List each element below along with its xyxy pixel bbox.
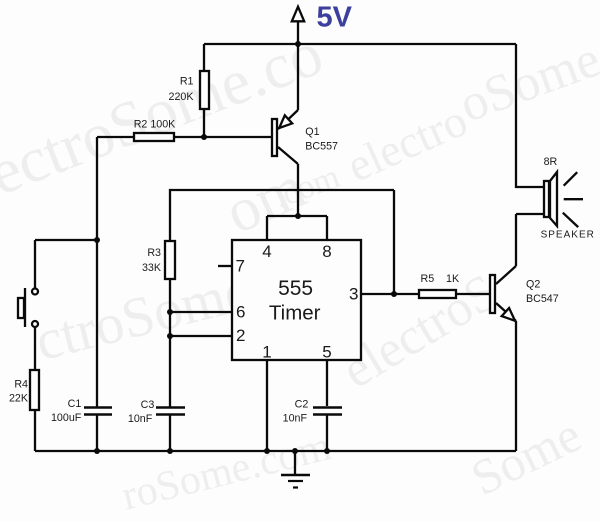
node C1 bus junction	[94, 448, 100, 454]
watermark fragment middle Some	[452, 30, 600, 135]
wire Q1 collector vertical	[297, 164, 299, 216]
wire pin 4 stub	[266, 216, 268, 240]
svg-text:BC557: BC557	[305, 141, 338, 153]
svg-text:100uF: 100uF	[51, 412, 82, 424]
node pin1 bus junction	[264, 448, 270, 454]
svg-text:33K: 33K	[142, 262, 162, 274]
wire left horizontal to button	[35, 239, 97, 241]
wire C2 bottom	[326, 416, 328, 452]
svg-text:R3: R3	[147, 247, 161, 259]
wire R2 to Q1 base	[175, 136, 271, 138]
resistor R1	[200, 71, 209, 109]
svg-text:Timer: Timer	[269, 301, 321, 324]
wire pin 1 down	[266, 360, 268, 451]
svg-text:Q1: Q1	[305, 126, 319, 138]
svg-text:BC547: BC547	[526, 293, 559, 305]
wire C1 bottom	[96, 416, 98, 452]
op-amp U1 555 timer box	[232, 240, 361, 360]
wire x394 vertical	[393, 190, 395, 294]
node ground bus junction	[292, 448, 298, 454]
wire pin 3 to R5	[361, 293, 419, 295]
capacitor C2	[313, 408, 342, 415]
svg-text:R2 100K: R2 100K	[134, 118, 176, 130]
wire pin 2	[170, 335, 232, 337]
svg-text:10nF: 10nF	[283, 413, 308, 425]
wire top rail	[204, 43, 516, 45]
node pin3 junction	[391, 291, 397, 297]
svg-text:SPEAKER: SPEAKER	[541, 229, 595, 240]
transistor Q1	[272, 44, 298, 164]
svg-text:5: 5	[322, 343, 331, 362]
node pin2 junction	[167, 333, 173, 339]
node R1/R2 junction	[201, 134, 207, 140]
power symbol 5V arrow	[292, 7, 304, 44]
node 5V junction	[295, 41, 301, 47]
wire Q2 collector up	[515, 214, 517, 266]
wire button bottom	[34, 327, 36, 370]
wire pin 6	[170, 311, 232, 313]
wire R1 top stub	[203, 44, 205, 71]
svg-text:C2: C2	[295, 399, 309, 411]
wire pin 5 down	[326, 360, 328, 406]
svg-text:R1: R1	[180, 76, 194, 88]
transistor Q2	[490, 266, 516, 321]
pushbutton SW1	[18, 288, 38, 327]
svg-text:7: 7	[236, 257, 245, 276]
svg-text:22K: 22K	[9, 393, 29, 405]
svg-text:6: 6	[236, 303, 245, 322]
svg-text:1K: 1K	[446, 273, 460, 285]
wire button top	[34, 240, 36, 288]
svg-text:R5: R5	[421, 273, 435, 285]
node 4-8 bridge junction	[295, 213, 301, 219]
svg-text:8R: 8R	[544, 156, 558, 168]
svg-text:R4: R4	[14, 379, 28, 391]
svg-text:10nF: 10nF	[128, 413, 153, 425]
resistor R5	[419, 290, 456, 298]
wire R4 to ground bus	[34, 411, 36, 451]
resistor R4	[30, 370, 39, 410]
wire R5 to Q2 base	[456, 293, 490, 295]
node left T junction	[94, 237, 100, 243]
ground	[281, 451, 310, 488]
capacitor C1	[84, 408, 112, 415]
watermark fragment lower-left	[29, 258, 257, 374]
svg-text:Q2: Q2	[526, 278, 540, 290]
svg-text:220K: 220K	[169, 91, 195, 103]
wire R3 top corner	[170, 190, 394, 240]
wire R1 bottom	[203, 110, 205, 137]
wire C3 bottom	[169, 416, 171, 452]
svg-text:2: 2	[236, 326, 245, 345]
node C2 bus junction	[324, 448, 330, 454]
resistor R3	[165, 241, 175, 279]
wire R3 down to C3	[169, 280, 171, 407]
node C3 bus junction	[167, 448, 173, 454]
watermark fragment middle electro	[339, 93, 475, 192]
svg-text:C3: C3	[141, 399, 155, 411]
svg-text:3: 3	[349, 285, 358, 304]
speaker LS1	[544, 172, 583, 227]
svg-text:1: 1	[262, 343, 271, 362]
wire pin 7 stub	[218, 265, 232, 267]
watermark fragment middle .com	[269, 158, 345, 217]
wire pin 8 stub	[326, 216, 328, 240]
svg-text:8: 8	[322, 242, 331, 261]
watermark fragment bottom-right	[462, 405, 590, 507]
watermark fragment upper-left	[0, 16, 332, 227]
wire C1 vertical	[96, 240, 98, 407]
wire ground bus	[35, 450, 516, 452]
wire left vertical from R2 corner	[96, 137, 98, 240]
capacitor C3	[156, 408, 185, 415]
watermark fragment bottom-center	[117, 422, 336, 520]
svg-text:4: 4	[262, 242, 271, 261]
watermark fragment middle om.com	[215, 152, 316, 249]
svg-text:C1: C1	[68, 398, 82, 410]
node pin6 junction	[167, 309, 173, 315]
wire speaker bottom terminal	[516, 213, 544, 215]
resistor R2	[134, 133, 174, 141]
wire base line left of R2	[97, 136, 134, 138]
wire speaker top terminal	[516, 44, 544, 187]
watermark fragment mid-lower electroS	[332, 262, 508, 400]
svg-text:555: 555	[278, 277, 313, 300]
wire Q2 emitter down	[515, 321, 517, 451]
svg-text:5V: 5V	[317, 2, 353, 34]
wire 4-8 bridge	[267, 215, 327, 217]
